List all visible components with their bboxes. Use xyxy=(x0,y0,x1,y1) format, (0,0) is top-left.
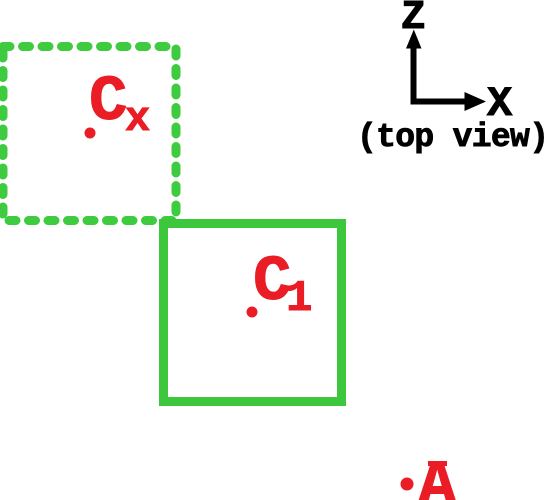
svg-text:x: x xyxy=(125,95,150,143)
svg-text:Z: Z xyxy=(401,0,426,41)
svg-text:(top view): (top view) xyxy=(357,119,544,156)
svg-text:1: 1 xyxy=(286,274,312,324)
svg-text:C: C xyxy=(89,67,127,139)
svg-text:A: A xyxy=(418,452,457,500)
